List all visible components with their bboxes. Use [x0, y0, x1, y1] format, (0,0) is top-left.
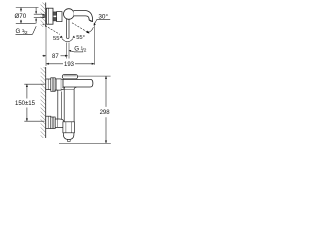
svg-text:150±15: 150±15: [15, 101, 36, 107]
spout (plan) straight + bend: [74, 11, 93, 22]
svg-text:55°: 55°: [76, 35, 85, 41]
outlet collar nut (elev): [63, 122, 75, 133]
union body (plan): [57, 12, 62, 22]
87 dimension: [42, 25, 68, 66]
298 dimension: [59, 76, 111, 143]
bottom union body / elbow (elev): [55, 119, 64, 127]
bottom escutcheon (elev): [46, 116, 51, 128]
G 1/2 label right (tube): [69, 46, 87, 54]
30 deg label + leader + arc: [87, 12, 110, 33]
wall (plan, hatched): [41, 3, 46, 28]
193 dimension: [46, 23, 95, 68]
union nut (plan, sectioned dark): [53, 12, 57, 21]
escutcheon (plan): [46, 8, 53, 24]
svg-text:55°: 55°: [53, 36, 62, 42]
top escutcheon (elev): [46, 79, 51, 90]
bottom union nut (elev): [51, 117, 55, 129]
top union nut (elev): [51, 78, 55, 92]
supply nipple in wall (plan, dark): [42, 14, 45, 15]
Ø70 dimension: [14, 8, 38, 24]
lever tube (plan, pointing down): [67, 19, 69, 38]
150±15 dimension: [15, 84, 44, 121]
svg-text:Ø70: Ø70: [14, 13, 26, 20]
hose nipple (elev): [68, 140, 71, 142]
vertical outlet tube (elev): [62, 87, 76, 122]
tube extension lines down to dims: [67, 43, 69, 59]
outlet dome (elev): [63, 133, 74, 140]
wall (elevation, hatched): [41, 67, 46, 138]
swing arc under tube: [60, 36, 75, 42]
svg-text:193: 193: [64, 62, 75, 68]
svg-text:298: 298: [100, 110, 111, 116]
spout (elev): [63, 79, 93, 87]
inner G1/2 pipe bracket: [34, 8, 45, 24]
body (elev): [55, 79, 65, 90]
svg-text:87: 87: [52, 54, 59, 60]
55deg dashed line left: [43, 24, 60, 34]
G 1/2 label top-left: [16, 26, 37, 36]
faucet body circle (plan): [64, 9, 75, 20]
55deg dashed line right: [72, 23, 89, 33]
supply column between unions (elev): [54, 90, 61, 120]
lever handle pill (elev): [62, 74, 77, 79]
